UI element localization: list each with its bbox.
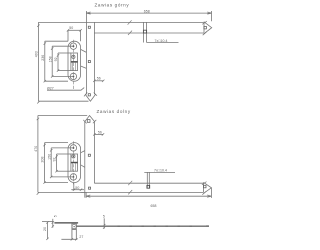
side dim 27 line (61, 238, 77, 240)
svg-text:27: 27 (79, 235, 83, 239)
lower 7x sq10.4 underline (144, 171, 175, 173)
arm tip corner slashes (202, 21, 207, 35)
bar tip square hole (88, 94, 90, 96)
frame bar left edge (85, 11, 87, 94)
ext 92 top (57, 153, 71, 155)
dim 50 extensions (67, 30, 69, 41)
ext 236 top (45, 40, 68, 42)
lower knuckle inner verticals (71, 163, 73, 171)
top extension line (tip apex) (38, 115, 87, 117)
lower arm bottom edge (81, 191, 204, 193)
side dim 20 (47, 222, 49, 238)
ext 158 bottom (52, 75, 73, 77)
lower bar tip square hole (87, 120, 90, 123)
lower arm break slash top (128, 181, 132, 185)
lower link line upper (81, 151, 85, 153)
dim 158 line (51, 46, 53, 76)
lower arm top edge (94, 182, 203, 184)
svg-text:20: 20 (43, 227, 47, 231)
plate centerline dashed (72, 40, 74, 91)
side dim 27 rod extensions (71, 230, 73, 239)
svg-text:236: 236 (41, 55, 45, 61)
svg-text:5: 5 (103, 214, 105, 218)
dia 27 underline + leader tick (47, 88, 84, 91)
side knuckle block (72, 224, 76, 230)
ext 208 top (45, 142, 68, 144)
ext 92 bottom (57, 170, 71, 172)
svg-text:50: 50 (75, 186, 79, 190)
dim 658 line (top) (86, 12, 211, 14)
arm tip triangle (204, 22, 212, 34)
side knuckle circle (72, 224, 76, 228)
frame bar right edge (93, 22, 95, 94)
lower knuckle pin circle (72, 155, 75, 158)
lower plate centerline (72, 141, 74, 184)
svg-text:92: 92 (53, 157, 57, 161)
arm break slash bottom (128, 31, 132, 35)
ext 150 bottom (51, 176, 73, 178)
lower screw hole bottom (70, 174, 76, 180)
knuckle pin circle (72, 55, 75, 58)
lower knuckle rectangle (71, 154, 78, 171)
lower knuckle dark band (71, 162, 78, 164)
svg-text:Zawias dolny: Zawias dolny (97, 109, 131, 114)
svg-text:158: 158 (48, 56, 52, 62)
lower arm tip square hole (204, 185, 207, 188)
dim 236 line (44, 41, 46, 81)
dim 658 (lower) line (86, 195, 211, 197)
screw hole bottom (70, 73, 76, 79)
arm tip square hole (204, 26, 207, 29)
dim 208 line (44, 143, 46, 183)
bar tip triangle (85, 94, 95, 101)
bottom extension (arm bottom) (38, 191, 85, 193)
bar square hole middle (88, 61, 90, 63)
lower hinge plate stadium (68, 143, 81, 183)
dim 56 (lower) (94, 133, 103, 135)
lower arm tip corner slashes (202, 182, 207, 195)
lower bar tip corner slashes (83, 120, 96, 124)
knuckle inner verticals (71, 63, 73, 71)
side arm bar (dark thin) (76, 226, 209, 227)
svg-text:658: 658 (144, 9, 150, 13)
lower screw hole top (70, 145, 76, 151)
dim 50 (upper) line (68, 29, 81, 31)
lower bar left edge (84, 122, 86, 197)
lower bar tip triangle (points up) (84, 116, 94, 123)
svg-text:5: 5 (54, 215, 58, 217)
svg-text:92: 92 (54, 57, 58, 61)
lower 7x sq10.4 square hole (147, 185, 150, 188)
svg-text:7x□10.4: 7x□10.4 (155, 39, 168, 43)
ext 150 top (51, 147, 73, 149)
svg-text:493: 493 (35, 51, 39, 57)
svg-text:7x□10.4: 7x□10.4 (154, 168, 167, 172)
arm bottom edge (94, 32, 204, 34)
knuckle dark band (71, 61, 78, 63)
svg-text:Zawias górny: Zawias górny (95, 3, 130, 8)
bar square hole top (88, 26, 90, 28)
dim 50 (lower) ext (73, 183, 75, 191)
arm break slash top (128, 20, 132, 24)
arm top edge + left extension to 493 dim (38, 21, 204, 23)
ext 236 bottom (45, 80, 68, 82)
svg-text:470: 470 (34, 146, 38, 152)
side dim 5 (arm thickness) (103, 218, 105, 228)
lower arm break slash bottom (128, 190, 132, 194)
dim 658 right extension line (211, 11, 213, 21)
side arm end cap (206, 225, 209, 227)
knuckle rectangle (71, 53, 78, 71)
7x sq10.4 label underline (147, 42, 179, 44)
link line lower (81, 66, 87, 68)
ext 158 top (52, 45, 73, 47)
lower 7x sq10.4 extension lines (146, 172, 148, 188)
dim 92 (lower) line (56, 154, 58, 171)
ext 208 bottom (45, 182, 68, 184)
dim 470 line (37, 116, 39, 193)
side pin rod (71, 230, 73, 239)
svg-text:208: 208 (41, 156, 45, 162)
bar tip corner slashes (84, 92, 97, 96)
dim 56 (upper) line (94, 80, 103, 82)
svg-text:56: 56 (98, 130, 102, 134)
lower bar square hole bottom (89, 187, 91, 189)
dim 658 right arrow (207, 12, 211, 14)
dim 493 line (37, 22, 39, 101)
dim 658 (lower) extensions (85, 192, 87, 198)
lower bar right edge (93, 122, 95, 183)
side arm hole ticks (118, 225, 192, 227)
hinge plate stadium outline (68, 41, 81, 81)
link line upper (81, 49, 87, 52)
7x sq10.4 extension lines (142, 22, 144, 42)
lower arm tip triangle (203, 182, 211, 193)
side plate edge-on (dark) (54, 222, 78, 224)
dim 658 left arrow (86, 12, 90, 14)
dim 50 (lower) line (71, 189, 84, 191)
side ext line top left (42, 221, 53, 223)
lower link line lower (81, 165, 85, 168)
side dim 5 (plate/arm offset) (52, 219, 54, 228)
svg-text:50: 50 (69, 26, 73, 30)
lower bar square hole middle (88, 154, 90, 156)
dim 150 line (50, 148, 52, 177)
ext 92 top (58, 52, 71, 54)
dim 92 line (57, 53, 59, 71)
bottom extension line (tip apex) (38, 100, 88, 102)
svg-text:658: 658 (151, 204, 157, 208)
svg-text:56: 56 (97, 77, 101, 81)
ext 92 bottom (58, 70, 71, 72)
7x sq10.4 square hole on arm (143, 30, 146, 33)
screw hole top (70, 43, 76, 49)
svg-text:150: 150 (47, 154, 51, 160)
